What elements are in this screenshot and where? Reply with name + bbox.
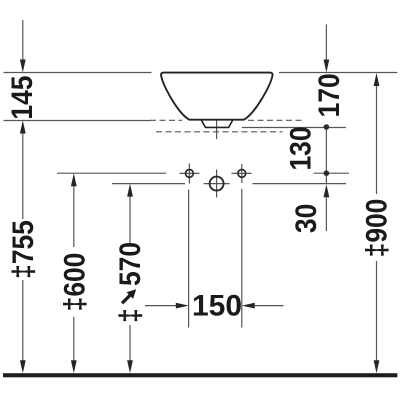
svg-text:‡600: ‡600 (57, 253, 91, 312)
svg-text:150: 150 (192, 289, 242, 322)
svg-text:‡755: ‡755 (5, 220, 39, 279)
svg-text:145: 145 (4, 76, 38, 120)
svg-text:‡900: ‡900 (359, 199, 393, 258)
svg-text:‡: ‡ (113, 308, 147, 323)
svg-text:570: 570 (113, 242, 147, 286)
svg-text:170: 170 (312, 73, 346, 117)
svg-text:130: 130 (283, 126, 317, 170)
svg-text:30: 30 (288, 204, 322, 233)
